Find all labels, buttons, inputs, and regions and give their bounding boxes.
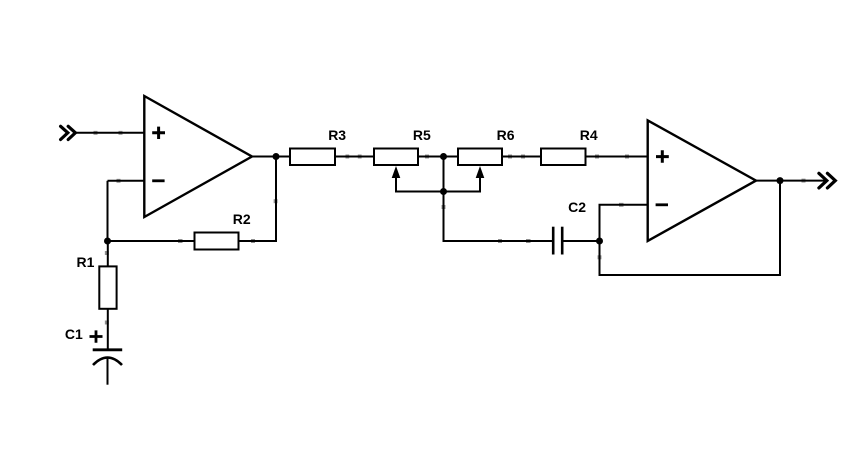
node B xyxy=(440,153,447,160)
wire xyxy=(395,191,481,193)
wire xyxy=(502,156,541,158)
node C xyxy=(440,188,447,195)
wire xyxy=(275,157,277,242)
wire joint marks xyxy=(94,133,806,325)
wire xyxy=(239,240,278,242)
wire xyxy=(75,132,145,134)
wire xyxy=(108,240,195,242)
svg-text:R1: R1 xyxy=(77,254,95,270)
wire xyxy=(335,156,374,158)
svg-text:R4: R4 xyxy=(580,127,598,143)
svg-text:R2: R2 xyxy=(233,211,251,227)
wire xyxy=(586,156,649,158)
capacitor C1 xyxy=(65,326,122,385)
node F xyxy=(104,238,111,245)
input connector xyxy=(61,126,76,139)
wire xyxy=(108,180,145,182)
op-amp U1 xyxy=(144,96,252,217)
svg-text:R5: R5 xyxy=(413,127,431,143)
resistor R1 xyxy=(77,254,117,309)
wire xyxy=(756,180,826,182)
wire xyxy=(600,181,781,275)
resistor R3 xyxy=(290,127,346,165)
wire xyxy=(418,156,458,158)
potentiometer R5 xyxy=(374,127,431,192)
svg-text:C2: C2 xyxy=(568,199,586,215)
output connector xyxy=(819,173,835,188)
capacitor C2 xyxy=(553,199,586,255)
wire xyxy=(443,240,553,242)
wire xyxy=(107,181,109,241)
potentiometer R6 xyxy=(458,127,515,192)
wire xyxy=(600,205,649,242)
node E xyxy=(777,177,784,184)
wire xyxy=(252,156,290,158)
svg-text:R3: R3 xyxy=(328,127,346,143)
wire xyxy=(443,157,445,243)
node D xyxy=(596,238,603,245)
svg-text:C1: C1 xyxy=(65,326,83,342)
resistor R4 xyxy=(541,127,598,165)
svg-text:R6: R6 xyxy=(497,127,515,143)
wire xyxy=(563,240,600,242)
op-amp U2 xyxy=(648,120,756,240)
node A xyxy=(273,153,280,160)
resistor R2 xyxy=(195,211,251,250)
wire xyxy=(107,309,109,350)
wire xyxy=(107,241,109,267)
